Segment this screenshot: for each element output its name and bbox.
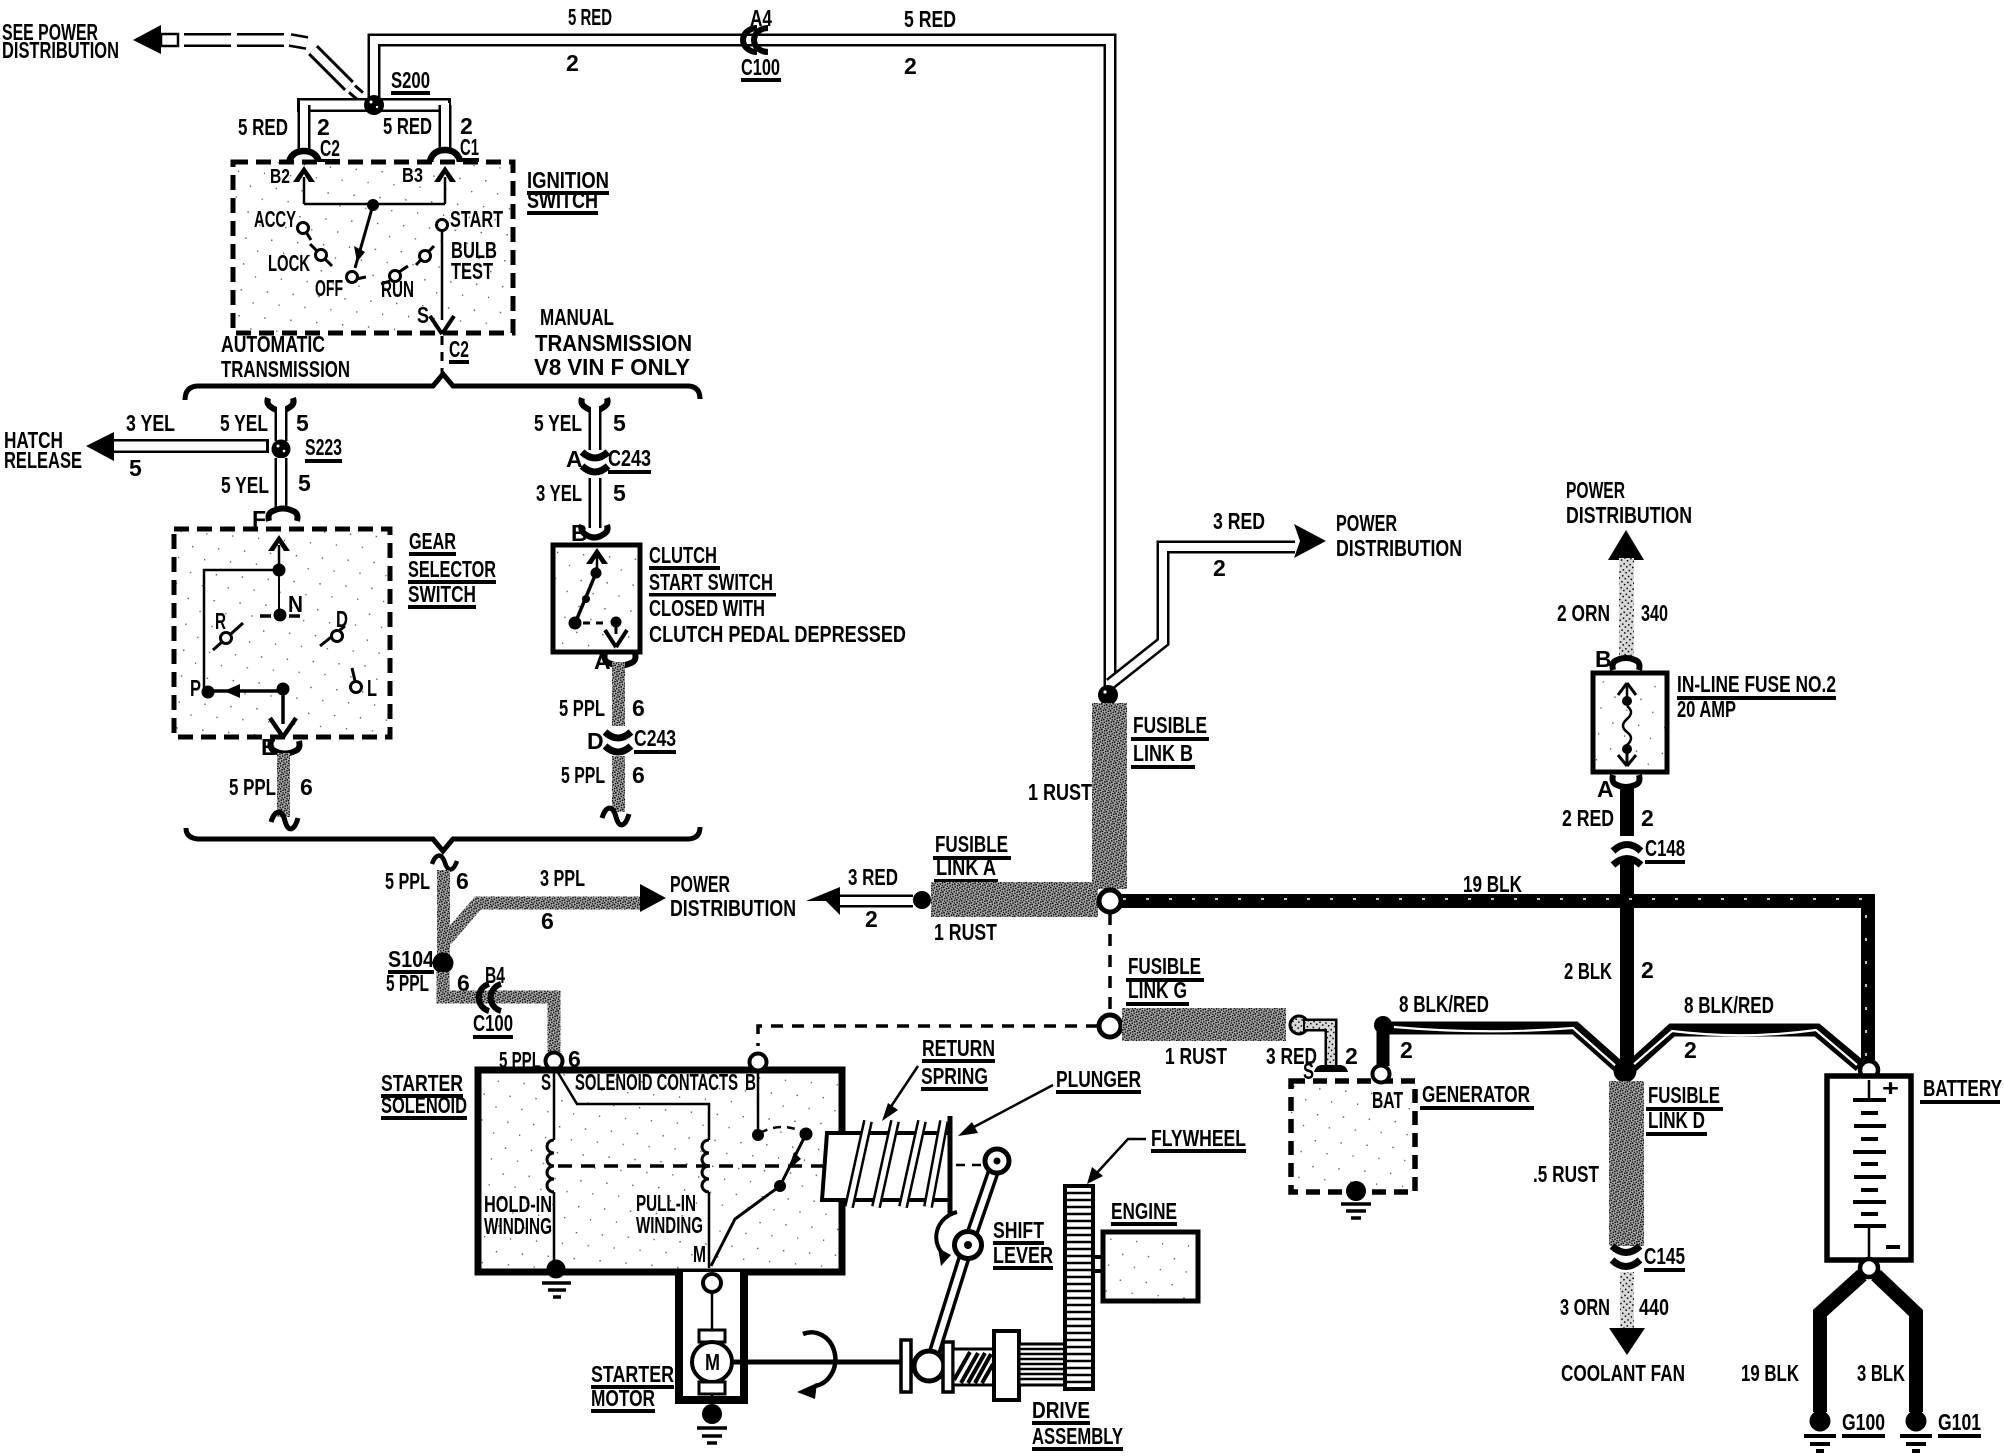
svg-text:LINK B: LINK B (1133, 740, 1193, 766)
svg-text:5: 5 (298, 470, 311, 496)
svg-text:GEAR: GEAR (409, 528, 456, 554)
svg-text:19 BLK: 19 BLK (1463, 871, 1522, 897)
svg-text:SPRING: SPRING (921, 1063, 988, 1089)
junction splice at link D (1614, 1060, 1637, 1083)
wire splice bar below S200 (297, 103, 451, 152)
connector cup auto branch (267, 398, 293, 411)
svg-text:C145: C145 (1644, 1243, 1685, 1269)
svg-text:6: 6 (632, 695, 645, 721)
splice S104 (388, 946, 454, 974)
ground G100 (1804, 1409, 1885, 1451)
svg-text:IN-LINE FUSE NO.2: IN-LINE FUSE NO.2 (1677, 671, 1836, 697)
svg-text:5: 5 (613, 480, 626, 506)
svg-text:6: 6 (541, 908, 554, 934)
fusible link D (1533, 1081, 1723, 1246)
motor shaft (732, 1332, 901, 1399)
label POWER DISTRIBUTION (3 RED upper) (1336, 510, 1462, 561)
svg-text:ENGINE: ENGINE (1111, 1198, 1177, 1224)
svg-text:5: 5 (613, 410, 626, 436)
label HATCH RELEASE (4, 427, 82, 473)
ignition switch internal bus (270, 165, 456, 204)
svg-text:OFF: OFF (315, 275, 343, 301)
svg-text:5 RED: 5 RED (238, 114, 288, 140)
svg-text:START SWITCH: START SWITCH (649, 569, 773, 595)
svg-text:ACCY: ACCY (254, 206, 296, 232)
svg-text:C243: C243 (608, 445, 651, 471)
drive helix (943, 1331, 1019, 1400)
svg-text:R: R (215, 608, 226, 634)
svg-text:B: B (745, 1069, 756, 1095)
label SHIFT LEVER (993, 1217, 1053, 1270)
svg-text:DISTRIBUTION: DISTRIBUTION (2, 37, 119, 63)
svg-text:5: 5 (129, 455, 142, 481)
battery box (1827, 1075, 1911, 1260)
svg-text:3 BLK: 3 BLK (1857, 1360, 1905, 1386)
svg-text:V8 VIN F ONLY: V8 VIN F ONLY (534, 354, 690, 380)
wire 5 PPL to brace (561, 756, 645, 825)
wire 2 ORN up arrow (1557, 530, 1668, 660)
label AUTOMATIC TRANSMISSION (221, 331, 350, 382)
battery cells (1853, 1080, 1900, 1258)
svg-text:DISTRIBUTION: DISTRIBUTION (670, 895, 796, 921)
svg-text:DISTRIBUTION: DISTRIBUTION (1336, 535, 1462, 561)
svg-text:C2: C2 (449, 336, 469, 362)
wire 5 PPL S104 to C100 to solenoid (386, 962, 554, 1052)
wire 3 RED to power distribution (left arrow) (806, 864, 913, 932)
svg-text:2: 2 (1345, 1043, 1358, 1069)
svg-text:BATTERY: BATTERY (1923, 1075, 2002, 1101)
gear contact R (213, 608, 243, 650)
svg-text:DISTRIBUTION: DISTRIBUTION (1566, 502, 1692, 528)
ground G101 (1900, 1409, 1981, 1451)
label PLUNGER (958, 1066, 1141, 1136)
svg-text:2: 2 (904, 53, 917, 79)
svg-text:G101: G101 (1938, 1409, 1981, 1435)
splice 3 RED link A (913, 891, 931, 909)
gear contact L (351, 668, 378, 701)
wire 5 YEL to S223 (220, 406, 309, 441)
svg-text:B2: B2 (270, 166, 290, 188)
label STARTER MOTOR (591, 1361, 674, 1413)
shift lever rotation arrow (936, 1212, 957, 1266)
shift lever (914, 1149, 1009, 1381)
wire 5 YEL manual (534, 406, 626, 450)
svg-text:1 RUST: 1 RUST (1028, 779, 1092, 805)
svg-text:2: 2 (566, 50, 579, 76)
svg-text:2: 2 (1400, 1037, 1413, 1063)
svg-text:LOCK: LOCK (268, 250, 310, 276)
svg-text:L: L (367, 675, 377, 701)
svg-text:CLUTCH PEDAL DEPRESSED: CLUTCH PEDAL DEPRESSED (649, 621, 906, 647)
svg-text:SOLENOID CONTACTS: SOLENOID CONTACTS (575, 1069, 738, 1095)
fusible link G bar (1122, 1008, 1286, 1069)
junction circle link A/B (1099, 890, 1121, 912)
brace upper (185, 374, 700, 400)
label IN-LINE FUSE NO.2 (1677, 671, 1836, 722)
svg-text:FUSIBLE: FUSIBLE (1133, 712, 1207, 738)
solenoid ground (542, 1260, 571, 1298)
connector B fuse cap (1595, 646, 1640, 672)
svg-text:LINK D: LINK D (1648, 1107, 1705, 1133)
svg-text:RUN: RUN (381, 276, 414, 302)
svg-text:A4: A4 (750, 5, 772, 31)
label CLUTCH START SWITCH (649, 542, 906, 647)
connector C100 A4 on top wire (741, 5, 781, 82)
splice S200 (364, 67, 430, 115)
wire 5 PPL below clutch (559, 662, 645, 726)
wire 3 YEL to clutch switch (536, 478, 626, 528)
connector C2 below switch (442, 336, 469, 376)
label FLYWHEEL (1087, 1125, 1246, 1184)
connector C2 cap (289, 151, 319, 167)
svg-text:RELEASE: RELEASE (4, 447, 82, 473)
svg-text:G100: G100 (1842, 1409, 1885, 1435)
svg-text:S104: S104 (388, 946, 434, 972)
svg-text:3 RED: 3 RED (1213, 508, 1265, 534)
svg-text:MANUAL: MANUAL (540, 304, 614, 330)
svg-text:BAT: BAT (1372, 1087, 1403, 1113)
wire 5 PPL below brace (385, 856, 469, 957)
svg-text:TRANSMISSION: TRANSMISSION (535, 330, 692, 356)
svg-text:MOTOR: MOTOR (591, 1385, 655, 1411)
label STARTER SOLENOID (381, 1070, 467, 1120)
svg-text:N: N (288, 591, 303, 617)
label RETURN SPRING (882, 1035, 995, 1121)
connector C243 pin A (566, 445, 651, 474)
svg-text:ASSEMBLY: ASSEMBLY (1032, 1423, 1123, 1449)
svg-text:S223: S223 (305, 434, 342, 460)
svg-text:POWER: POWER (1566, 477, 1625, 503)
solenoid hold-in winding (484, 1069, 554, 1262)
ignition position BULB TEST (416, 237, 497, 284)
drive spline (1019, 1344, 1067, 1385)
gear contact P and wiper (190, 675, 296, 737)
gear contact N (260, 591, 303, 622)
wire 3 BLK to G101 (1857, 1275, 1916, 1412)
svg-text:3 YEL: 3 YEL (536, 480, 582, 506)
wire 2 BLK (1564, 908, 1654, 1062)
svg-text:3 PPL: 3 PPL (540, 865, 585, 891)
wire label 5 RED at C2 (238, 114, 340, 163)
svg-text:C2: C2 (320, 135, 340, 161)
svg-text:20 AMP: 20 AMP (1677, 696, 1736, 722)
svg-text:5 PPL: 5 PPL (386, 970, 429, 996)
engine box (1093, 1232, 1198, 1301)
svg-text:2 RED: 2 RED (1562, 805, 1614, 831)
svg-text:6: 6 (632, 762, 645, 788)
svg-text:FUSIBLE: FUSIBLE (1128, 953, 1201, 979)
clutch start switch box (553, 545, 640, 652)
svg-text:5 PPL: 5 PPL (229, 774, 276, 800)
svg-text:3 YEL: 3 YEL (126, 410, 175, 436)
wire 8 BLK/RED left (1374, 991, 1620, 1068)
wire 3 ORN to coolant fan (1560, 1272, 1685, 1386)
wire 3 YEL hatch release arrow (86, 410, 269, 481)
terminal S solenoid (499, 1046, 581, 1073)
splice S223 (272, 434, 343, 463)
svg-text:SHIFT: SHIFT (993, 1217, 1044, 1243)
svg-text:D: D (587, 728, 604, 754)
svg-text:WINDING: WINDING (636, 1212, 703, 1238)
svg-text:5 PPL: 5 PPL (385, 868, 430, 894)
svg-text:5 RED: 5 RED (383, 113, 432, 139)
connector C243 pin D (587, 725, 676, 754)
svg-text:2: 2 (1641, 805, 1654, 831)
svg-text:C100: C100 (741, 54, 780, 80)
clutch switch contacts (569, 548, 628, 647)
connector cup manual branch (581, 398, 607, 411)
svg-text:POWER: POWER (1336, 510, 1397, 536)
svg-text:COOLANT FAN: COOLANT FAN (1561, 1360, 1685, 1386)
svg-text:FUSIBLE: FUSIBLE (1648, 1082, 1720, 1108)
svg-text:LEVER: LEVER (993, 1242, 1053, 1268)
svg-text:C148: C148 (1645, 835, 1685, 861)
solenoid pull-in winding (557, 1071, 709, 1268)
connector C100 lower (473, 984, 513, 1039)
svg-text:5 YEL: 5 YEL (221, 472, 269, 498)
wire label 5 RED right of A4 (904, 6, 956, 79)
generator box (1291, 1081, 1415, 1192)
svg-text:SELECTOR: SELECTOR (408, 556, 496, 582)
in-line fuse box (1593, 673, 1667, 772)
connector B clutch cup (571, 520, 608, 546)
svg-text:POWER: POWER (670, 871, 730, 897)
solenoid contact mechanism (711, 1070, 813, 1266)
label POWER DISTRIBUTION (3 PPL) (670, 871, 796, 921)
label DRIVE ASSEMBLY (1032, 1397, 1123, 1451)
wire label 5 RED at C1 (383, 113, 479, 162)
arrow to power distribution (left) (133, 25, 178, 54)
wire 5 RED main run to fusible link B (374, 40, 1110, 686)
svg-text:2: 2 (865, 906, 878, 932)
terminal M starter (703, 1274, 721, 1292)
generator ground (1341, 1181, 1371, 1218)
label GENERATOR (1420, 1081, 1534, 1110)
svg-text:START: START (450, 206, 503, 232)
starter motor box (679, 1272, 744, 1400)
gear selector switch box (174, 529, 390, 737)
label BATTERY (1920, 1075, 2002, 1104)
svg-text:RETURN: RETURN (922, 1035, 995, 1061)
svg-text:+: + (1882, 1075, 1899, 1101)
svg-text:B3: B3 (402, 165, 423, 187)
ignition position ACCY (254, 206, 311, 240)
svg-text:P: P (190, 675, 201, 701)
label FUSIBLE LINK G (1126, 953, 1204, 1006)
connector A cap below clutch (594, 648, 636, 674)
label MANUAL TRANSMISSION V8 VIN F ONLY (534, 304, 692, 380)
generator BAT terminal (1373, 1066, 1390, 1083)
wire 5 PPL below gear switch (229, 753, 313, 829)
svg-text:CLUTCH: CLUTCH (649, 542, 717, 568)
svg-text:3 ORN: 3 ORN (1560, 1294, 1610, 1320)
fusible link A bar (931, 882, 1098, 945)
ignition position START (437, 206, 504, 232)
svg-text:FLYWHEEL: FLYWHEEL (1151, 1125, 1246, 1151)
svg-text:PLUNGER: PLUNGER (1056, 1066, 1141, 1092)
wire 19 BLK to G100 (1741, 1275, 1862, 1412)
dashed link to fusible link G (758, 913, 1121, 1046)
wire 5 YEL S223 to gear switch (221, 458, 311, 510)
ignition position OFF (315, 272, 366, 302)
connector F cap (252, 506, 298, 532)
connector C148 (1613, 835, 1685, 894)
svg-text:DRIVE: DRIVE (1032, 1397, 1090, 1423)
svg-text:M: M (705, 1349, 720, 1375)
label POWER DISTRIBUTION (top right) (1566, 477, 1692, 528)
label SOLENOID CONTACTS (541, 1069, 756, 1095)
svg-text:8 BLK/RED: 8 BLK/RED (1684, 992, 1774, 1018)
svg-text:5: 5 (296, 410, 309, 436)
svg-text:GENERATOR: GENERATOR (1422, 1081, 1530, 1107)
svg-text:1 RUST: 1 RUST (934, 919, 997, 945)
label FUSIBLE LINK A (933, 831, 1011, 883)
flywheel ring gear (1065, 1186, 1093, 1389)
wire 2 RED (1562, 786, 1654, 836)
svg-text:5 PPL: 5 PPL (559, 695, 605, 721)
ignition position RUN (381, 266, 414, 302)
svg-text:2 BLK: 2 BLK (1564, 958, 1612, 984)
svg-text:S: S (541, 1069, 551, 1095)
svg-text:SWITCH: SWITCH (527, 187, 598, 213)
fuse element (1618, 683, 1636, 766)
plunger cylinder (822, 1116, 982, 1214)
ignition switch box (233, 162, 513, 333)
svg-text:2: 2 (1684, 1037, 1697, 1063)
svg-text:5 RED: 5 RED (568, 4, 612, 30)
battery minus terminal (1860, 1259, 1878, 1277)
svg-text:5 YEL: 5 YEL (534, 410, 582, 436)
splice at fusible link B (1098, 685, 1118, 705)
svg-text:SOLENOID: SOLENOID (381, 1092, 467, 1118)
drive shaft flange (901, 1340, 911, 1392)
wire 3 PPL to power distribution (446, 865, 666, 940)
svg-text:S200: S200 (391, 67, 430, 93)
wire 3 RED link G to generator S (1266, 1016, 1358, 1084)
svg-text:5 RED: 5 RED (904, 6, 956, 32)
gear contact D (320, 606, 348, 646)
wire 3 RED branch to power distribution (1110, 508, 1326, 684)
solenoid plunger link dashed (558, 1164, 952, 1168)
svg-text:340: 340 (1641, 600, 1668, 626)
svg-text:LINK A: LINK A (936, 854, 996, 880)
fusible link B (1028, 703, 1209, 889)
svg-text:6: 6 (300, 774, 313, 800)
svg-text:STARTER: STARTER (591, 1361, 674, 1387)
connector A fuse cup (1597, 775, 1640, 802)
label IGNITION SWITCH (527, 167, 609, 215)
return spring coils (849, 1121, 944, 1207)
svg-text:5 YEL: 5 YEL (220, 410, 268, 436)
ignition switch rotor (354, 199, 379, 268)
terminal B solenoid (750, 1054, 767, 1071)
svg-text:S: S (417, 302, 429, 328)
svg-text:C243: C243 (634, 725, 676, 751)
svg-text:LINK G: LINK G (1128, 977, 1187, 1003)
svg-text:TEST: TEST (451, 258, 493, 284)
svg-text:B: B (1595, 646, 1612, 672)
svg-text:19 BLK: 19 BLK (1741, 1360, 1799, 1386)
wire 19 BLK main (1121, 871, 1868, 1060)
svg-text:C1: C1 (460, 134, 479, 160)
label SEE POWER DISTRIBUTION (2, 19, 119, 63)
svg-text:AUTOMATIC: AUTOMATIC (221, 331, 325, 357)
connector C1 cap (430, 150, 460, 166)
svg-text:CLOSED WITH: CLOSED WITH (649, 595, 765, 621)
svg-text:8 BLK/RED: 8 BLK/RED (1399, 991, 1489, 1017)
svg-text:SWITCH: SWITCH (408, 581, 476, 607)
starter solenoid box (478, 1070, 842, 1272)
connector C145 (1612, 1243, 1685, 1272)
svg-text:.5 RUST: .5 RUST (1533, 1161, 1599, 1187)
svg-text:3 RED: 3 RED (848, 864, 898, 890)
battery plus terminal (1860, 1061, 1878, 1079)
wire 8 BLK/RED right (1630, 992, 1860, 1068)
label GEAR SELECTOR SWITCH (408, 528, 496, 609)
svg-text:2 ORN: 2 ORN (1557, 600, 1610, 626)
svg-text:TRANSMISSION: TRANSMISSION (221, 356, 350, 382)
svg-text:5 PPL: 5 PPL (561, 762, 605, 788)
svg-text:C100: C100 (473, 1010, 513, 1036)
svg-text:2: 2 (1641, 957, 1654, 983)
svg-text:6: 6 (456, 868, 469, 894)
starter motor armature (692, 1292, 732, 1408)
svg-text:1 RUST: 1 RUST (1165, 1043, 1227, 1069)
connector E cap (261, 734, 300, 760)
gear switch feed (204, 535, 290, 688)
svg-text:2: 2 (1213, 555, 1226, 581)
brace lower (186, 827, 700, 851)
svg-text:440: 440 (1639, 1294, 1669, 1320)
wire label 5 RED left of A4 (566, 4, 612, 76)
svg-text:M: M (693, 1241, 706, 1267)
wire 5 RED dashed feed segments (184, 40, 360, 96)
wire START to S pin (417, 230, 454, 334)
svg-text:WINDING: WINDING (484, 1213, 552, 1239)
label ENGINE (1111, 1198, 1177, 1226)
ignition position LOCK (268, 244, 332, 276)
starter motor ground (697, 1404, 727, 1443)
